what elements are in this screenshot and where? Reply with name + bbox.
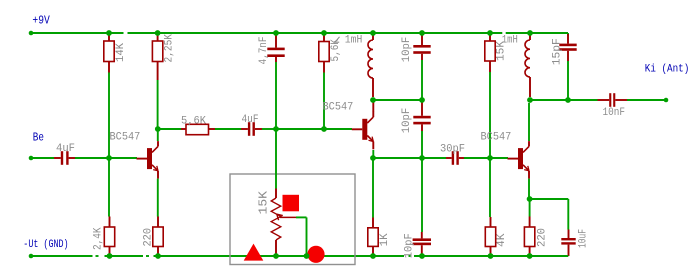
capacitor 4uF input (54, 157, 61, 159)
svg-text:2,25K: 2,25K (164, 33, 176, 62)
junction Q2 emitter / 1K / row158 (370, 155, 376, 161)
junction L2 / Q3 collector / row100 (527, 97, 533, 103)
wire wiper to rail corner (296, 216, 307, 218)
wire base node to Q1 base (109, 157, 137, 159)
junction 14K / 2,4K / Q1 base (106, 155, 112, 161)
wire 15pF bottom to node row 100 (567, 61, 569, 100)
svg-text:BC547: BC547 (481, 132, 512, 144)
svg-text:4uF: 4uF (242, 114, 259, 126)
wire 2,4K top (108, 158, 110, 217)
capacitor 10uF (568, 230, 570, 239)
svg-text:10pF: 10pF (401, 108, 413, 134)
resistor 1K (372, 218, 374, 228)
wire bottom rail segment A (31, 255, 93, 257)
wire 2,25K bottom to Q1 collector node (157, 80, 159, 129)
junction rail / 220 right (527, 253, 533, 259)
svg-text:1mH: 1mH (502, 35, 518, 47)
wire bottom rail dash under 10pF label (409, 255, 411, 257)
svg-text:1K: 1K (379, 233, 391, 247)
svg-text:10nF: 10nF (603, 107, 626, 119)
capacitor 4uF coupling (241, 128, 248, 130)
wire 10pF top bottom lead to node row 100 (421, 60, 423, 100)
svg-text:BC547: BC547 (323, 102, 354, 114)
resistor 14K (108, 33, 110, 41)
junction rail / 10pF bottom (419, 253, 425, 259)
annotation red square (283, 195, 300, 212)
wire Q2 emitter to node row 158 (372, 150, 374, 158)
junction top rail / 2,25K (155, 30, 161, 36)
terminal dot -Ut (29, 254, 34, 259)
resistor 220 right (529, 217, 531, 228)
wire 10nF to output terminal (627, 99, 666, 101)
wire node 129 to 5,6K horizontal (158, 128, 181, 130)
junction top rail / 14K (106, 30, 112, 36)
wire 1K top (372, 158, 374, 218)
wire bottom rail dash under 2,4K label (96, 255, 99, 257)
junction rail / 1K (370, 253, 376, 259)
svg-text:15pF: 15pF (552, 38, 564, 65)
capacitor 30pF (446, 157, 452, 159)
junction top rail / 10pF C-top (419, 30, 425, 36)
junction Q2 collector / L1 / row100 (370, 97, 376, 103)
wire 4uF to base node of Q1 (75, 157, 109, 159)
potentiometer 15K (275, 189, 277, 199)
wire 10uF column down (567, 199, 569, 230)
terminal dot +9V (29, 31, 34, 36)
junction top rail / 5,6K vertical (321, 30, 327, 36)
wire 4,7nF bottom to node row 129 (275, 62, 277, 129)
svg-text:10uF: 10uF (578, 229, 590, 248)
junction rail / 220 left (155, 253, 161, 259)
terminal dot Be (29, 156, 34, 161)
svg-text:14K: 14K (115, 42, 127, 62)
wire 30pF to Q3 base node (464, 157, 490, 159)
svg-text:BC547: BC547 (110, 131, 141, 143)
svg-text:10pF: 10pF (404, 233, 416, 258)
inductor 1mH L1 (372, 33, 374, 40)
transistor Q3 BC547 (518, 148, 523, 169)
junction 10pF column row 100 (419, 97, 425, 103)
svg-text:+9V: +9V (32, 14, 49, 27)
wire top rail segment A (31, 32, 124, 34)
wire node (276,129) to node (324,129) (276, 128, 324, 130)
potentiometer wiper shaft (280, 216, 296, 218)
junction 15K / 4K / Q3 base (487, 155, 493, 161)
capacitor 10nF (598, 99, 610, 101)
junction rail / pot wiper (304, 253, 310, 259)
terminal dot Ki (Ant) (664, 98, 669, 103)
wire Q1 emitter down (157, 179, 159, 217)
wire 4uF coupling to node (276,129) (262, 128, 276, 130)
capacitor 10pF top (421, 33, 423, 45)
junction top rail / 1mH L2 (527, 30, 533, 36)
transistor Q1 BC547 (147, 148, 152, 169)
svg-text:4,7nF: 4,7nF (258, 37, 270, 65)
annotation box around potentiometer (230, 174, 355, 265)
potentiometer wiper arrow (277, 214, 283, 215)
svg-text:220: 220 (142, 228, 154, 247)
resistor 2,4K (109, 217, 111, 228)
wire top rail segment C (506, 32, 568, 34)
wire 10pF bottom top lead (421, 158, 423, 232)
capacitor 10pF middle (421, 100, 423, 116)
junction top rail / 1mH L1 (370, 30, 376, 36)
junction 5,6K vertical node row 129 (321, 126, 327, 132)
wire 5,6K to 4uF coupling (215, 128, 241, 130)
svg-text:1mH: 1mH (345, 35, 363, 47)
svg-text:4K: 4K (496, 233, 508, 247)
svg-text:5,6K: 5,6K (181, 115, 207, 127)
resistor 5,6K horizontal (181, 128, 186, 130)
svg-text:220: 220 (537, 228, 549, 247)
capacitor 15pF (567, 34, 569, 44)
junction top rail / 15K (487, 30, 493, 36)
wire bottom rail segment B (105, 255, 144, 257)
junction Q3 emitter / 220 / 10uF (527, 196, 533, 202)
svg-text:4uF: 4uF (56, 143, 75, 155)
wire bottom rail dash under 220 label (146, 255, 149, 257)
wire pot top from node 129 (275, 129, 277, 189)
decorative angle glyph near 1mH L1 (335, 37, 340, 42)
wire top rail corner down to 15pF (567, 33, 569, 36)
wire top rail segment B (128, 32, 503, 34)
wire 5,6K vertical bottom to node row 129 (323, 73, 325, 130)
wire 220R top (529, 199, 531, 217)
annotation red triangle (244, 244, 264, 261)
svg-text:15K: 15K (257, 190, 271, 214)
svg-text:30pF: 30pF (440, 144, 465, 156)
svg-text:Be: Be (33, 132, 44, 145)
svg-text:10pF: 10pF (401, 37, 413, 63)
resistor 2,25K (157, 33, 159, 41)
resistor 220 left (157, 217, 159, 228)
wire Q3 base node to Q3 (490, 157, 508, 159)
inductor 1mH L2 (529, 33, 531, 40)
junction top rail / 4,7nF (273, 30, 279, 36)
wire Q1 collector to node 129 (157, 129, 159, 141)
transistor Q2 BC547 (362, 119, 367, 140)
svg-text:-Ut (GND): -Ut (GND) (23, 239, 68, 251)
capacitor 4,7nF (275, 33, 277, 48)
svg-text:2,4K: 2,4K (92, 227, 104, 250)
wire row158 Q2 emitter to 30pF (373, 157, 446, 159)
wire 10pF middle to row 158 (421, 131, 423, 158)
junction 10pF column row 158 (419, 155, 425, 161)
junction rail / 4K (488, 253, 494, 259)
junction Q1 collector node row 129 (155, 126, 161, 132)
wire bottom rail segment D (414, 255, 568, 257)
svg-text:Ki (Ant): Ki (Ant) (645, 64, 690, 76)
wire node row 100 left (Q2 collector to 10pF column) (373, 99, 422, 101)
wire node row 100 right (L2 to 10nF) (530, 99, 598, 101)
wire 14K bottom to base row (108, 73, 110, 159)
junction 15pF / row100 (565, 97, 571, 103)
wire bottom rail segment C (154, 255, 405, 257)
resistor 5,6K vertical (323, 33, 325, 42)
wire node 199 to 10uF column (530, 198, 569, 200)
capacitor 10pF bottom (421, 232, 423, 238)
wire node (324,129) to Q2 base (324, 128, 352, 130)
resistor 4K (490, 217, 492, 227)
resistor 15K (489, 33, 491, 41)
wire Q3 collector to row 100 (528, 103, 530, 141)
wire Q2 collector red stub to row100 (372, 100, 374, 112)
junction rail / 2,4K (107, 253, 113, 259)
wire 4K top (489, 158, 491, 217)
annotation red circle (307, 246, 324, 263)
wire 15K bottom to Q3 base node (489, 72, 491, 158)
junction rail / pot bottom (273, 253, 279, 259)
wire Be input to 4uF (31, 157, 54, 159)
wire Q3 emitter down to node 199 (528, 179, 530, 199)
junction 4,7nF / pot top node (273, 126, 279, 132)
